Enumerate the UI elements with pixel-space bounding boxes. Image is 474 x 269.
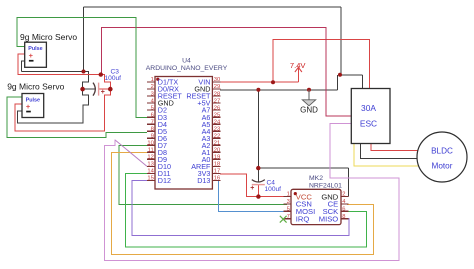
wire Arduino D13 pin16 to NRF MOSI pin5: [219, 180, 287, 211]
wire C4 negative lead: [257, 168, 259, 182]
svg-text:15: 15: [147, 176, 153, 182]
pin 11 D8 (left): [147, 151, 155, 153]
pin 20 A1 (right): [212, 151, 220, 153]
capacitor C4 100uf: [252, 180, 265, 182]
pin 23 A4 (right): [212, 130, 220, 132]
pin 8 D5 (left): [147, 130, 155, 132]
svg-text:28: 28: [214, 91, 220, 97]
wire servo1 minus pin to GND rail: [22, 61, 25, 72]
power symbol 7.4V: [297, 68, 299, 82]
wire ESC to motor phase black: [361, 144, 419, 159]
pin 15 D12 (left): [147, 179, 155, 181]
wire ESC to motor phase yellow: [354, 144, 418, 167]
svg-text:100uf: 100uf: [105, 75, 122, 82]
svg-text:29: 29: [214, 84, 220, 90]
wire ESC BEC 5V output to servo supply junction: [101, 28, 351, 117]
pin 22 A3 (right): [212, 137, 220, 139]
pin 5 D2 (left): [147, 109, 155, 111]
no-connect X on IRQ pin: [280, 216, 287, 223]
wire Arduino D10 pin13 diagonal segment: [115, 140, 147, 167]
pin 17 3V3 (right): [212, 172, 220, 174]
motor BLDC circle: [417, 132, 467, 182]
wire GND vertical x=83.5 from top rail to servo junction: [83, 7, 85, 72]
svg-text:3: 3: [287, 199, 290, 205]
wire GND vertical x=348.5 down to NRF GND pin2: [348, 168, 350, 196]
svg-text:25: 25: [214, 112, 220, 118]
junction VIN 7.4V: [271, 80, 275, 84]
pin 30 VIN (right): [212, 81, 220, 83]
svg-text:20: 20: [214, 148, 220, 154]
svg-text:9: 9: [151, 133, 154, 139]
svg-text:17: 17: [214, 169, 220, 175]
svg-text:9g Micro Servo: 9g Micro Servo: [7, 82, 64, 92]
svg-text:IRQ: IRQ: [296, 215, 310, 224]
svg-text:+: +: [101, 89, 105, 96]
pin 1 D1/TX (left): [147, 81, 155, 83]
svg-text:12: 12: [147, 155, 153, 161]
wire NRF GND pin2 stub link: [341, 196, 349, 198]
pin 16 D13 (right): [212, 179, 220, 181]
svg-text:16: 16: [214, 176, 220, 182]
pin 3 CSN (NRF left): [284, 203, 292, 205]
svg-text:11: 11: [148, 148, 154, 154]
wire VIN rail y=82.2 to 7.4V symbol: [220, 81, 298, 83]
svg-text:2: 2: [151, 84, 154, 90]
pin 29 GND (right): [212, 88, 220, 90]
pin 10 D7 (left): [147, 144, 155, 146]
svg-text:NRF24L01: NRF24L01: [309, 182, 342, 189]
svg-text:5: 5: [151, 105, 154, 111]
svg-text:7: 7: [287, 214, 290, 220]
wire D10 to ESC signal input manhattan run: [105, 124, 400, 261]
pin 19 A0 (right): [212, 158, 220, 160]
pin 9 D6 (left): [147, 137, 155, 139]
svg-text:27: 27: [214, 98, 220, 104]
wire servo2 pulse to Arduino D5 pin8: [7, 97, 147, 138]
pin 12 D9 (left): [147, 158, 155, 160]
svg-text:+: +: [29, 51, 34, 60]
svg-text:1: 1: [287, 192, 290, 198]
wire ESC battery minus drop into ESC top: [362, 75, 364, 89]
wire supply staircase around C3 plus lead down to servo2 plus: [15, 75, 110, 131]
pin 27 +5V (right): [212, 102, 220, 104]
wire C4 positive lead: [257, 185, 259, 197]
junction C3 positive lead: [108, 87, 113, 92]
wire GND top horizontal rail y=7: [84, 6, 342, 8]
wire ESC to motor phase red: [371, 144, 418, 151]
svg-text:ARDUINO_NANO_EVERY: ARDUINO_NANO_EVERY: [146, 65, 228, 72]
pin 6 SCK (NRF right): [341, 210, 349, 212]
svg-text:8: 8: [151, 126, 154, 132]
svg-text:14: 14: [147, 169, 154, 175]
wire servo1 pulse to Arduino D3 pin6: [17, 18, 147, 118]
svg-text:+: +: [26, 102, 31, 111]
svg-text:2: 2: [342, 192, 345, 198]
svg-text:ESC: ESC: [360, 118, 377, 128]
pin 24 A5 (right): [212, 123, 220, 125]
svg-text:5: 5: [287, 207, 290, 213]
pin 3 RESET (left): [147, 95, 155, 97]
wire 3V3 pin17 to NRF VCC pin1: [220, 174, 287, 197]
pin 1 VCC (NRF left): [284, 196, 292, 198]
svg-text:100uf: 100uf: [265, 186, 282, 193]
pin 7 IRQ (NRF left): [284, 218, 292, 220]
svg-text:MISO: MISO: [319, 215, 339, 224]
svg-text:7: 7: [151, 119, 154, 125]
svg-text:30: 30: [214, 77, 220, 83]
pin 28 RESET (right): [212, 95, 220, 97]
svg-text:23: 23: [214, 126, 220, 132]
pin 25 A6 (right): [212, 116, 220, 118]
wire servo1 plus to supply junction y=74.6: [18, 54, 101, 75]
wire GND vertical x=337.5 junction to GND rail: [337, 75, 339, 90]
junction servo supply / BEC: [99, 72, 103, 76]
svg-text:MK2: MK2: [309, 175, 323, 182]
junction servo GND rail: [82, 70, 86, 74]
svg-text:21: 21: [214, 140, 220, 146]
svg-text:10: 10: [147, 140, 153, 146]
junction C3 negative lead: [80, 87, 85, 92]
pin 18 AREF (right): [212, 165, 220, 167]
wire Arduino D8 pin11 to NRF CE pin4: [112, 152, 374, 254]
svg-text:30A: 30A: [361, 103, 376, 113]
svg-text:GND: GND: [300, 105, 318, 114]
wire Arduino D7 pin10 to NRF CSN pin3: [119, 146, 287, 205]
svg-text:D12: D12: [158, 176, 171, 185]
pin 21 A2 (right): [212, 144, 220, 146]
svg-text:19: 19: [214, 155, 220, 161]
wire GND staircase around C3 left lead down to servo2 minus: [17, 72, 88, 124]
pin 13 D10 (left): [147, 165, 155, 167]
junction GND symbol: [307, 88, 311, 92]
svg-text:+: +: [250, 185, 254, 192]
pin 26 A7 (right): [212, 109, 220, 111]
svg-text:6: 6: [151, 112, 154, 118]
pin 2 D0/RX (left): [147, 88, 155, 90]
ground symbol GND: [308, 90, 310, 100]
svg-text:22: 22: [214, 133, 220, 139]
wire C3 positive lead tap: [99, 88, 110, 90]
wire GND vertical x=341 down to ESC-area junction: [340, 7, 342, 75]
svg-text:6: 6: [342, 207, 345, 213]
wire GND rail y=89.8 from Arduino GND pin29: [220, 89, 338, 91]
junction C4 negative lead: [256, 166, 260, 170]
wire GND horizontal y=168.1 to NRF GND: [258, 167, 348, 169]
ESC 30A box: [351, 89, 390, 144]
pin 5 MOSI (NRF left): [284, 210, 292, 212]
wire Arduino D12 pin15 to NRF MISO pin8: [132, 180, 349, 235]
pin 4 CE (NRF right): [341, 203, 349, 205]
wire GND horizontal y=74.8 to ESC battery minus: [340, 74, 363, 76]
wire GND horizontal y=71.5 under servo1: [22, 71, 84, 73]
svg-text:24: 24: [214, 119, 221, 125]
pin 14 D11 (left): [147, 172, 155, 174]
wire GND drop x=258.4 to C4 top: [257, 90, 259, 168]
svg-text:18: 18: [214, 162, 220, 168]
svg-text:13: 13: [147, 162, 153, 168]
junction C4 positive lead on VCC line: [256, 194, 260, 198]
svg-text:D13: D13: [197, 176, 210, 185]
junction GND rail C4 branch: [256, 88, 260, 92]
wire Arduino D11 pin14 to NRF SCK pin6: [126, 173, 367, 247]
svg-text:Motor: Motor: [432, 161, 453, 170]
svg-text:1: 1: [151, 77, 154, 83]
pin 6 D3 (left): [147, 116, 155, 118]
svg-text:3: 3: [151, 91, 154, 97]
svg-text:BLDC: BLDC: [431, 147, 453, 156]
wire C3 negative lead tap: [83, 88, 97, 90]
junction GND ESC corner: [338, 73, 342, 77]
capacitor C3 100uf: [93, 83, 95, 96]
svg-text:9g Micro Servo: 9g Micro Servo: [20, 32, 77, 42]
svg-text:U4: U4: [182, 57, 191, 64]
pin 4 GND (left): [147, 102, 155, 104]
svg-text:8: 8: [342, 214, 345, 220]
pin 8 MISO (NRF right): [341, 218, 349, 220]
pin 7 D4 (left): [147, 123, 155, 125]
svg-text:26: 26: [214, 105, 220, 111]
svg-text:7.4V: 7.4V: [290, 61, 307, 70]
wire battery plus from junction up over to ESC top: [273, 39, 370, 88]
pin 2 GND (NRF right): [341, 196, 349, 198]
